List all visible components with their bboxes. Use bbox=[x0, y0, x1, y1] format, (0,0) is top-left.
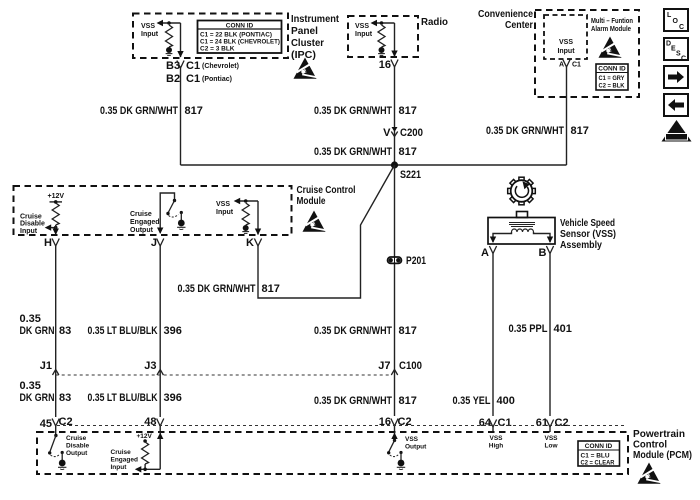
cruise module dashed box bbox=[14, 186, 292, 235]
connector Y at 16 (PCM) bbox=[391, 419, 398, 427]
cruise VSS pull-up resistor bbox=[242, 199, 249, 225]
wire label 0.35 DK GRN/WHT 817 (convenience) bbox=[486, 125, 589, 137]
svg-text:Cruise: Cruise bbox=[20, 214, 42, 221]
svg-text:VSS: VSS bbox=[216, 201, 230, 208]
pin 64 C1 label bbox=[479, 417, 512, 429]
svg-text:B2: B2 bbox=[166, 73, 180, 85]
pin 45 C2 label bbox=[40, 416, 73, 430]
DESC button bbox=[664, 38, 688, 63]
J3 label and chevron bbox=[144, 360, 163, 375]
connector Y at 16 bbox=[391, 60, 398, 68]
cruise module label bbox=[297, 185, 356, 207]
IPC CONN ID table bbox=[198, 21, 282, 54]
svg-text:High: High bbox=[489, 443, 503, 450]
svg-text:396: 396 bbox=[164, 392, 182, 404]
+12V rail bar bbox=[50, 200, 63, 204]
cruise ESD symbol bbox=[303, 211, 326, 232]
svg-text:16: 16 bbox=[379, 59, 391, 71]
VSS reluctor gear bbox=[508, 177, 536, 205]
wire label 0.35 DK GRN/WHT 817 (main, lower) bbox=[314, 395, 417, 407]
cruise engaged switch actuator bbox=[177, 211, 185, 230]
connector Y at 64 bbox=[489, 420, 496, 428]
svg-text:CONN ID: CONN ID bbox=[598, 66, 626, 73]
IPC output wire with arrowhead bbox=[177, 23, 183, 58]
connector Y at 61 bbox=[546, 420, 553, 428]
LOC button bbox=[664, 9, 688, 31]
grommet P201 bbox=[388, 255, 427, 267]
svg-text:817: 817 bbox=[399, 395, 417, 407]
Radio resistor ball terminator bbox=[378, 47, 385, 55]
svg-text:Input: Input bbox=[111, 464, 128, 471]
connector Y at J bbox=[157, 239, 164, 247]
svg-text:401: 401 bbox=[554, 323, 572, 335]
svg-text:Cruise: Cruise bbox=[130, 211, 152, 218]
IPC resistor ball terminator bbox=[166, 47, 173, 55]
Convenience Center outer dashed box bbox=[535, 10, 639, 97]
svg-text:A: A bbox=[559, 62, 564, 69]
IPC pull-up resistor bbox=[166, 21, 173, 47]
cruise disable wire to H with arrowhead bbox=[53, 225, 59, 235]
svg-text:Input: Input bbox=[355, 31, 373, 38]
svg-text:S221: S221 bbox=[400, 169, 421, 181]
svg-text:817: 817 bbox=[185, 105, 203, 117]
svg-text:400: 400 bbox=[497, 395, 515, 407]
horizontal bus wire bbox=[181, 164, 567, 166]
connector Y at 45 bbox=[52, 419, 59, 427]
svg-text:CONN ID: CONN ID bbox=[226, 23, 254, 30]
convenience ESD symbol bbox=[599, 37, 622, 58]
svg-text:Multi – Funtion: Multi – Funtion bbox=[591, 18, 633, 25]
connector Y at A bbox=[489, 246, 496, 254]
svg-text:83: 83 bbox=[59, 392, 71, 404]
Multi-Funtion Alarm Module inner dashed box bbox=[544, 15, 587, 59]
svg-text:C1 = GRY: C1 = GRY bbox=[599, 75, 626, 82]
svg-text:0.35 DK GRN/WHT: 0.35 DK GRN/WHT bbox=[314, 105, 392, 117]
wire label 0.35 DK GRN/WHT 817 (radio lower) bbox=[314, 146, 417, 158]
PCM dashed box bbox=[37, 432, 628, 474]
svg-text:C2 = 3 BLK: C2 = 3 BLK bbox=[200, 46, 235, 53]
svg-text:Panel: Panel bbox=[291, 26, 318, 37]
diagonal wire from S221 to cruise module bbox=[258, 165, 395, 298]
VSS output actuator bbox=[397, 451, 405, 470]
svg-text:VSS: VSS bbox=[559, 39, 573, 46]
svg-text:Control: Control bbox=[633, 440, 667, 451]
J7 label and chevron bbox=[378, 360, 422, 375]
svg-text:Input: Input bbox=[20, 228, 38, 235]
svg-text:C1 = 24 BLK (CHEVROLET): C1 = 24 BLK (CHEVROLET) bbox=[200, 39, 280, 46]
svg-text:Sensor (VSS): Sensor (VSS) bbox=[560, 229, 616, 240]
svg-text:817: 817 bbox=[399, 146, 417, 158]
Radio pull-up resistor bbox=[378, 21, 385, 47]
cruise engaged switch bbox=[157, 193, 179, 234]
IPC label text bbox=[291, 14, 340, 61]
VSS label bbox=[560, 218, 616, 251]
svg-text:C2: C2 bbox=[398, 416, 412, 428]
Multi-Funtion Alarm Module label bbox=[591, 18, 633, 33]
wire label 0.35 DK GRN 83 (upper) bbox=[20, 313, 72, 337]
svg-text:Input: Input bbox=[216, 209, 234, 216]
svg-text:VSS: VSS bbox=[489, 435, 503, 442]
svg-text:61: 61 bbox=[536, 417, 548, 429]
svg-text:Input: Input bbox=[141, 31, 159, 38]
Cruise Engaged Output label bbox=[130, 211, 160, 234]
svg-text:J3: J3 bbox=[144, 360, 156, 372]
cruise resistor ball terminator bbox=[242, 225, 249, 233]
svg-text:45: 45 bbox=[40, 418, 52, 430]
connector Y at H bbox=[52, 239, 59, 247]
svg-text:817: 817 bbox=[571, 125, 589, 137]
convenience CONN ID table bbox=[596, 64, 628, 90]
cruise disable pull-up resistor bbox=[52, 203, 59, 225]
svg-text:C200: C200 bbox=[400, 127, 423, 139]
wire label 0.35 LT BLU/BLK 396 (upper) bbox=[88, 325, 182, 337]
connector Y at 48 bbox=[157, 419, 164, 427]
cruise disable wire H column bbox=[55, 246, 57, 417]
svg-text:Low: Low bbox=[545, 443, 559, 450]
PCM connector face dotted line bbox=[57, 425, 626, 427]
Cruise Engaged Input label bbox=[111, 449, 138, 471]
VSS assembly box bbox=[488, 212, 555, 245]
VSS pickup coil bbox=[509, 223, 535, 233]
svg-text:Instrument: Instrument bbox=[291, 14, 340, 25]
svg-text:Output: Output bbox=[130, 227, 154, 234]
svg-text:II: II bbox=[675, 127, 679, 134]
connector B3/C1 labels bbox=[166, 60, 239, 85]
svg-text:Output: Output bbox=[66, 450, 88, 457]
svg-text:0.35 LT BLU/BLK: 0.35 LT BLU/BLK bbox=[88, 325, 158, 337]
svg-text:(IPC): (IPC) bbox=[291, 50, 316, 61]
Cruise Disable Input label bbox=[20, 214, 45, 235]
VSS Low label bbox=[544, 435, 558, 450]
svg-text:0.35 PPL: 0.35 PPL bbox=[509, 323, 548, 335]
svg-text:817: 817 bbox=[399, 325, 417, 337]
VSS coil wires with arrowheads bbox=[490, 232, 553, 243]
svg-text:C2 = BLK: C2 = BLK bbox=[599, 83, 625, 90]
connector Y at A bbox=[563, 60, 570, 68]
cruise VSS input arrow bbox=[234, 198, 258, 204]
svg-text:Module (PCM): Module (PCM) bbox=[633, 450, 692, 461]
svg-text:817: 817 bbox=[262, 283, 280, 295]
svg-text:0.35 DK GRN/WHT: 0.35 DK GRN/WHT bbox=[314, 325, 392, 337]
svg-text:83: 83 bbox=[59, 325, 71, 337]
svg-text:+12V: +12V bbox=[137, 433, 153, 440]
connector Y at B3 bbox=[177, 61, 184, 69]
svg-text:Center: Center bbox=[505, 20, 533, 31]
svg-text:H: H bbox=[44, 237, 52, 249]
cruise disable output switch bbox=[48, 432, 60, 457]
svg-text:Alarm Module: Alarm Module bbox=[591, 26, 631, 33]
svg-text:C1: C1 bbox=[572, 62, 581, 69]
wire label 0.35 DK GRN/WHT 817 (IPC) bbox=[100, 105, 203, 117]
svg-text:B: B bbox=[539, 247, 547, 259]
PCM cruise engaged resistor bbox=[142, 439, 149, 469]
wire label 0.35 DK GRN/WHT 817 (radio upper) bbox=[314, 105, 417, 117]
VSS Output label bbox=[405, 436, 427, 451]
svg-text:VSS: VSS bbox=[355, 23, 369, 30]
svg-text:0.35 LT BLU/BLK: 0.35 LT BLU/BLK bbox=[88, 392, 158, 404]
svg-text:Engaged: Engaged bbox=[111, 457, 138, 464]
svg-text:K: K bbox=[246, 237, 254, 249]
svg-text:0.35 YEL: 0.35 YEL bbox=[453, 395, 491, 407]
svg-text:CONN ID: CONN ID bbox=[585, 443, 613, 450]
svg-text:P201: P201 bbox=[406, 255, 426, 267]
VSS High label bbox=[489, 435, 503, 450]
svg-text:C: C bbox=[681, 56, 686, 63]
next arrow button bbox=[664, 66, 688, 88]
svg-text:Cruise Control: Cruise Control bbox=[297, 185, 356, 196]
wire label 0.35 PPL 401 bbox=[509, 323, 572, 335]
IPC module dashed box bbox=[133, 14, 288, 59]
Radio module dashed box bbox=[348, 16, 418, 57]
svg-text:C1: C1 bbox=[186, 73, 200, 85]
svg-text:VSS: VSS bbox=[405, 436, 419, 443]
svg-text:J7: J7 bbox=[378, 360, 390, 372]
svg-text:+12V: +12V bbox=[48, 193, 65, 200]
IPC VSS input arrow bbox=[157, 20, 181, 26]
VSS output switch bbox=[387, 432, 399, 457]
wire label 0.35 LT BLU/BLK 396 (lower) bbox=[88, 392, 182, 404]
svg-text:Convenience: Convenience bbox=[478, 9, 533, 20]
connector C100 dashed line bbox=[56, 374, 390, 376]
svg-text:Input: Input bbox=[557, 48, 575, 55]
svg-text:C1 = BLU: C1 = BLU bbox=[581, 453, 610, 460]
cruise engaged wire J column bbox=[159, 246, 161, 417]
IPC drop wire bbox=[180, 68, 182, 165]
svg-text:DK GRN: DK GRN bbox=[20, 392, 55, 404]
radio drop wire bbox=[394, 67, 396, 165]
svg-text:Cruise: Cruise bbox=[111, 449, 132, 456]
Radio VSS Input label bbox=[355, 23, 373, 38]
svg-text:V: V bbox=[383, 127, 391, 139]
inner VSS Input label bbox=[557, 39, 575, 55]
svg-text:DK GRN: DK GRN bbox=[20, 325, 55, 337]
cruise VSS Input label bbox=[216, 201, 234, 216]
pin 16 C2 label bbox=[379, 416, 412, 428]
svg-text:Cruise: Cruise bbox=[66, 435, 87, 442]
VSS high wire bbox=[492, 254, 494, 417]
svg-text:Vehicle Speed: Vehicle Speed bbox=[560, 218, 615, 229]
svg-text:64: 64 bbox=[479, 417, 492, 429]
cruise disable input arrow bbox=[45, 224, 58, 230]
cruise engaged input wire with arrows bbox=[135, 432, 164, 472]
svg-text:Engaged: Engaged bbox=[130, 219, 160, 226]
wire label 0.35 YEL 400 bbox=[453, 395, 515, 407]
PCM CONN ID table bbox=[578, 441, 620, 467]
J1 label and chevron bbox=[40, 360, 59, 375]
main vertical wire below S221 bbox=[394, 165, 396, 416]
PCM label bbox=[633, 429, 692, 461]
svg-text:0.35 DK GRN/WHT: 0.35 DK GRN/WHT bbox=[100, 105, 178, 117]
svg-text:C: C bbox=[679, 24, 684, 31]
svg-text:0.35 DK GRN/WHT: 0.35 DK GRN/WHT bbox=[486, 125, 564, 137]
IPC VSS Input label bbox=[141, 23, 159, 38]
svg-text:OBD II: OBD II bbox=[669, 135, 685, 141]
svg-text:C2: C2 bbox=[59, 416, 73, 428]
svg-text:Assembly: Assembly bbox=[560, 240, 602, 251]
svg-text:0.35 DK GRN/WHT: 0.35 DK GRN/WHT bbox=[314, 146, 392, 158]
Cruise Disable Output label bbox=[66, 435, 90, 457]
svg-text:Output: Output bbox=[405, 444, 427, 451]
PCM ESD symbol bbox=[638, 463, 661, 484]
svg-text:C1 = 22 BLK (PONTIAC): C1 = 22 BLK (PONTIAC) bbox=[200, 32, 272, 39]
svg-text:C1: C1 bbox=[186, 60, 200, 72]
wire stubs into PCM bbox=[56, 426, 550, 432]
connector C200 on radio wire bbox=[383, 127, 423, 139]
Radio output wire with arrowhead bbox=[391, 23, 397, 57]
svg-text:(Chevrolet): (Chevrolet) bbox=[202, 63, 239, 70]
svg-text:Powertrain: Powertrain bbox=[633, 429, 685, 440]
svg-text:16: 16 bbox=[379, 416, 391, 428]
OBD II badge bbox=[662, 120, 692, 142]
back arrow button bbox=[664, 94, 688, 116]
VSS low wire bbox=[549, 254, 551, 417]
svg-text:O: O bbox=[673, 18, 679, 25]
Radio VSS input arrow bbox=[371, 20, 395, 26]
svg-text:Disable: Disable bbox=[20, 221, 45, 228]
convenience drop wire bbox=[566, 67, 568, 165]
svg-text:C2: C2 bbox=[555, 417, 569, 429]
wire label 0.35 DK GRN/WHT 817 (cruise branch) bbox=[178, 283, 280, 295]
svg-text:48: 48 bbox=[144, 416, 156, 428]
connector Y at B bbox=[546, 246, 553, 254]
IPC ESD symbol bbox=[294, 58, 317, 79]
svg-text:0.35 DK GRN/WHT: 0.35 DK GRN/WHT bbox=[314, 395, 392, 407]
svg-text:C1: C1 bbox=[498, 417, 512, 429]
svg-text:Disable: Disable bbox=[66, 443, 90, 450]
svg-text:L: L bbox=[667, 12, 672, 19]
wire label 0.35 DK GRN 83 (lower) bbox=[20, 380, 72, 404]
svg-text:Radio: Radio bbox=[421, 17, 448, 28]
svg-text:Cluster: Cluster bbox=[291, 38, 324, 49]
svg-text:C2 = CLEAR: C2 = CLEAR bbox=[581, 460, 615, 467]
pin 61 C2 label bbox=[536, 417, 569, 429]
svg-text:817: 817 bbox=[399, 105, 417, 117]
cruise disable output actuator bbox=[58, 451, 66, 470]
svg-text:VSS: VSS bbox=[544, 435, 558, 442]
svg-text:(Pontiac): (Pontiac) bbox=[202, 76, 232, 83]
Convenience Center label bbox=[478, 9, 533, 31]
svg-text:0.35: 0.35 bbox=[20, 313, 41, 325]
svg-text:VSS: VSS bbox=[141, 23, 155, 30]
connector A/C1 labels bbox=[559, 62, 581, 69]
connector Y at K bbox=[254, 239, 261, 247]
wire label 0.35 DK GRN/WHT 817 (main, upper) bbox=[314, 325, 417, 337]
splice S221 bbox=[391, 161, 421, 181]
svg-text:396: 396 bbox=[164, 325, 182, 337]
svg-text:0.35 DK GRN/WHT: 0.35 DK GRN/WHT bbox=[178, 283, 256, 295]
svg-text:A: A bbox=[481, 247, 489, 259]
svg-text:C100: C100 bbox=[399, 360, 422, 372]
svg-text:0.35: 0.35 bbox=[20, 380, 41, 392]
svg-text:J1: J1 bbox=[40, 360, 52, 372]
cruise VSS wire to K with arrowhead bbox=[255, 201, 261, 235]
svg-text:Module: Module bbox=[297, 196, 326, 207]
